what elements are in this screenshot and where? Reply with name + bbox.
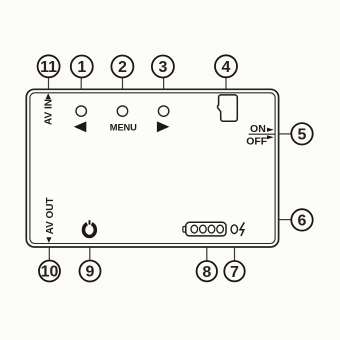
svg-text:8: 8: [202, 264, 211, 281]
svg-text:11: 11: [40, 59, 57, 76]
svg-text:AV OUT: AV OUT: [45, 197, 56, 234]
svg-text:1: 1: [77, 59, 86, 76]
svg-text:AV IN: AV IN: [44, 99, 55, 125]
svg-text:6: 6: [298, 213, 307, 230]
svg-text:ON: ON: [250, 123, 266, 135]
svg-text:10: 10: [41, 264, 59, 281]
svg-text:OFF: OFF: [246, 136, 268, 148]
svg-text:MENU: MENU: [110, 122, 137, 132]
svg-text:4: 4: [222, 59, 231, 76]
svg-text:3: 3: [158, 59, 167, 76]
svg-text:7: 7: [230, 264, 239, 281]
svg-text:9: 9: [86, 264, 95, 281]
svg-text:2: 2: [118, 59, 127, 76]
svg-text:5: 5: [298, 127, 307, 144]
